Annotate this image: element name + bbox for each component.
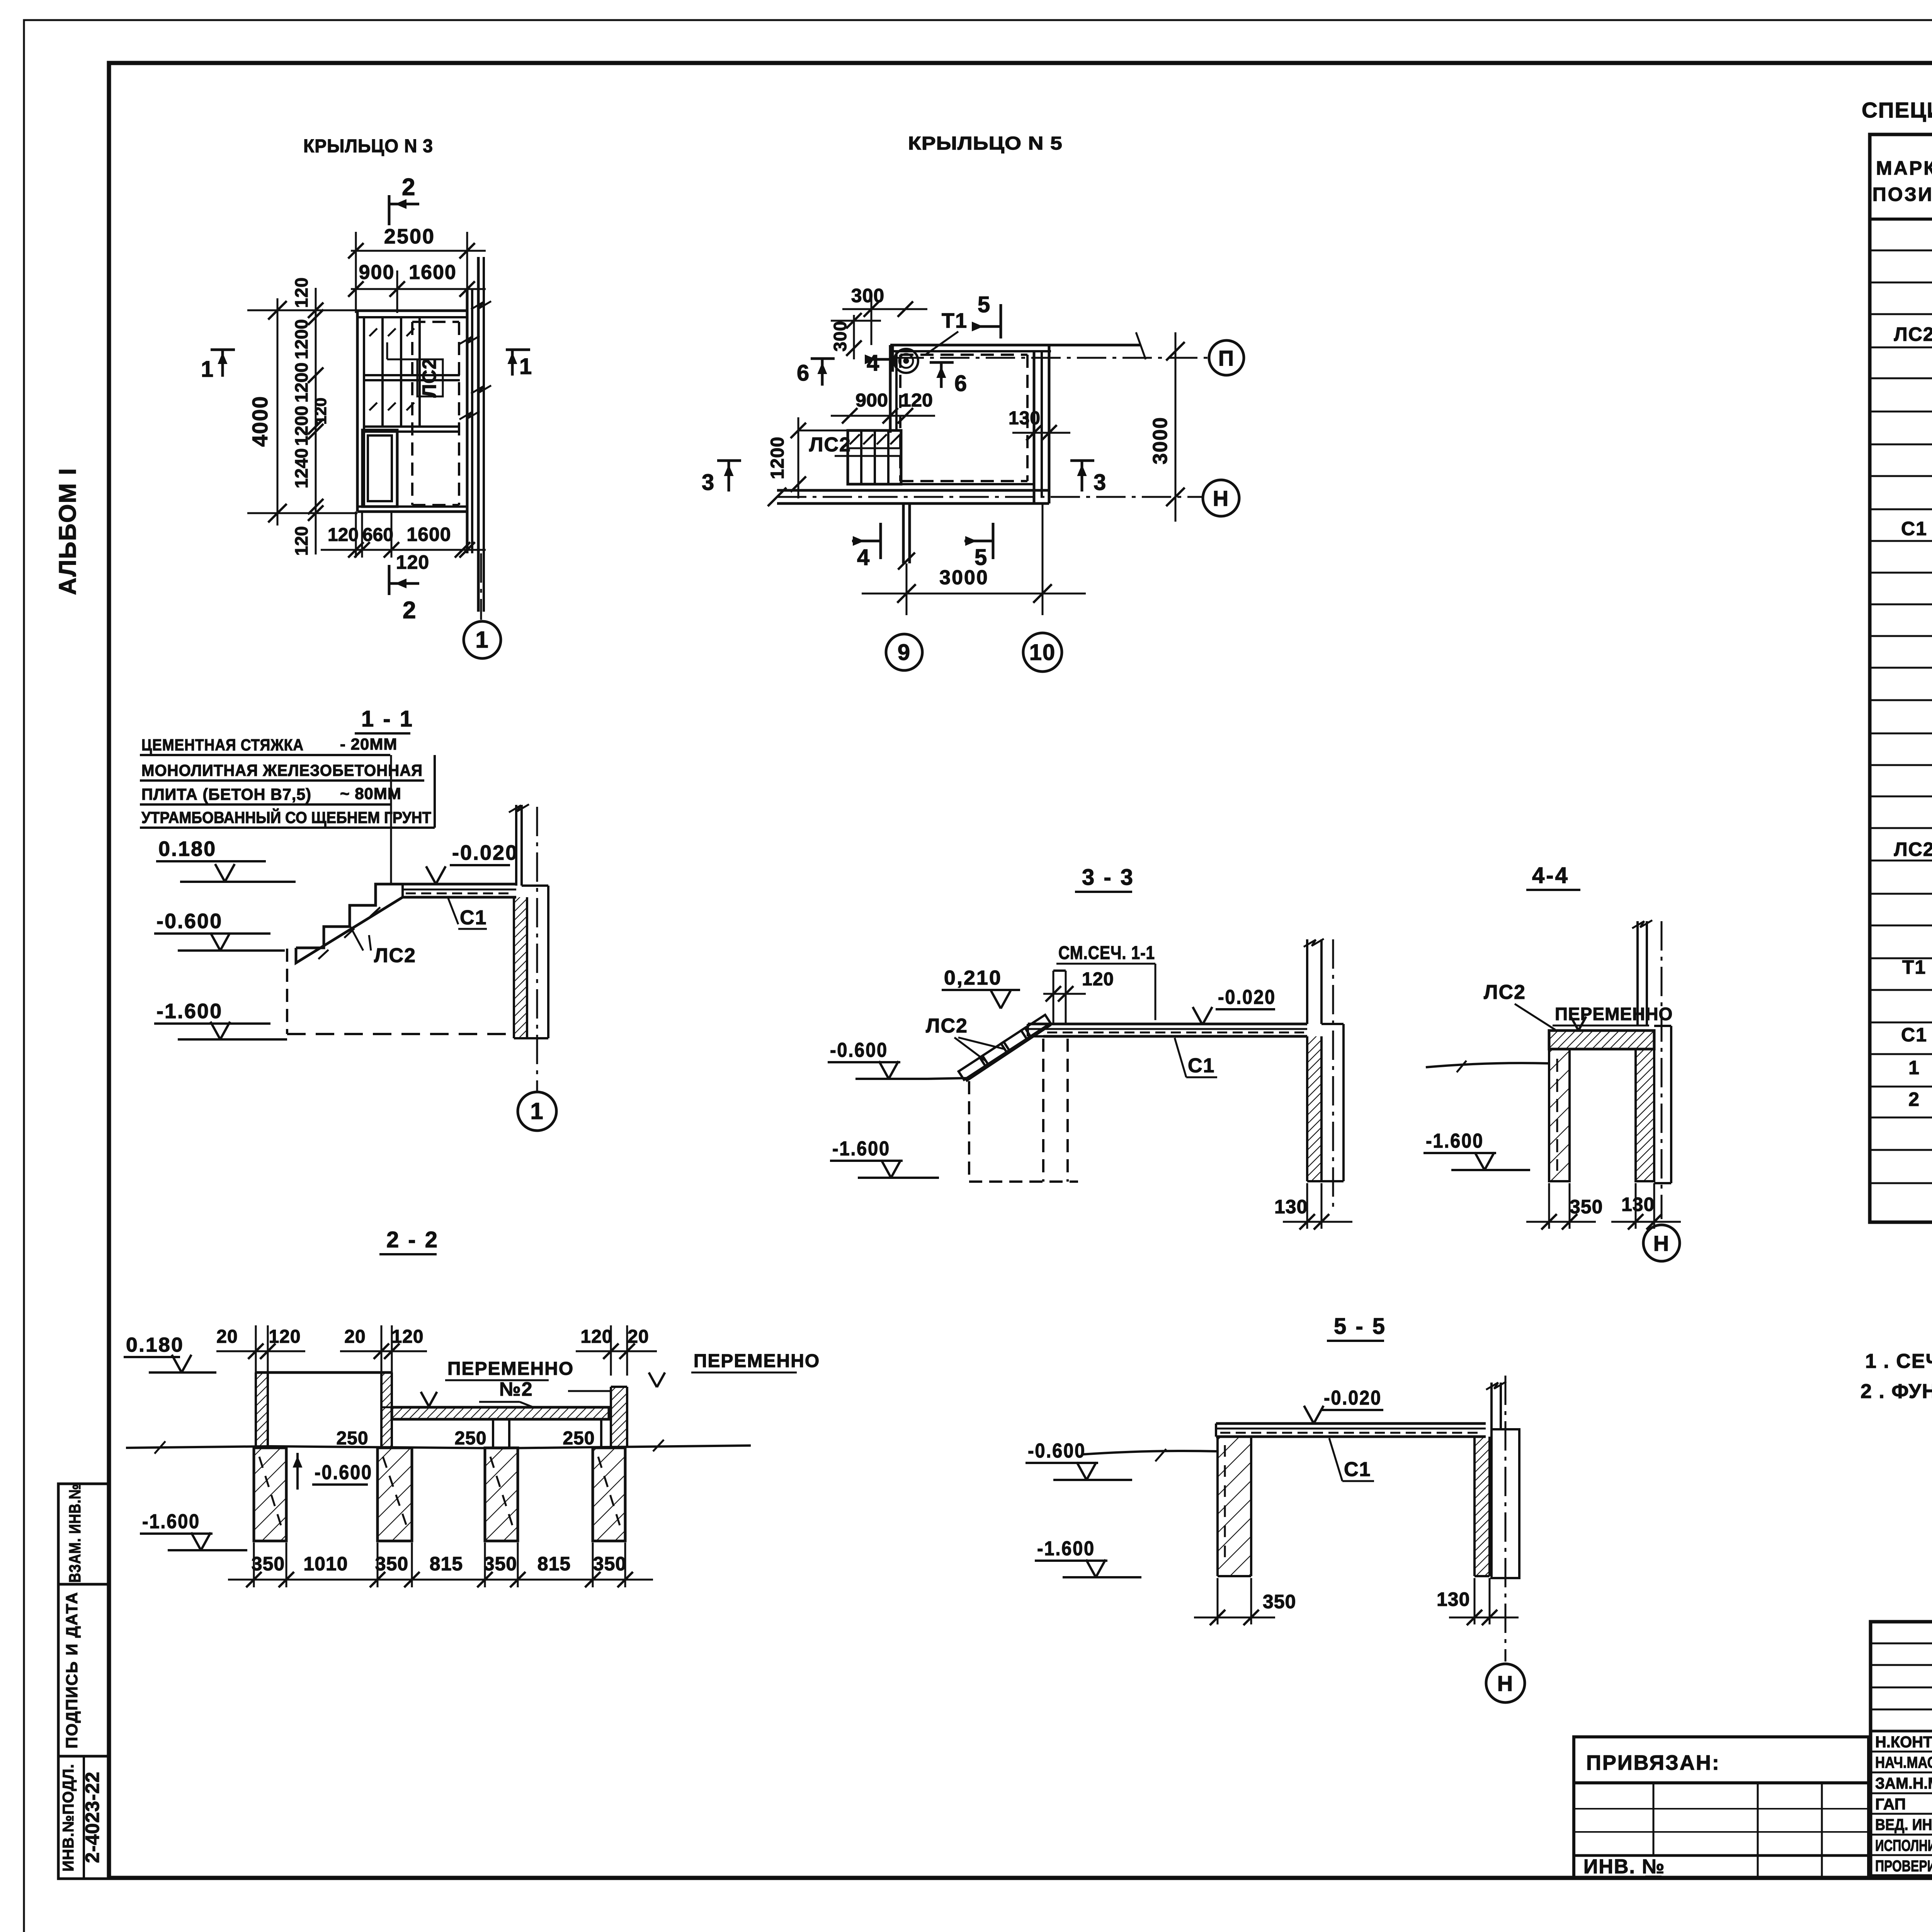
- section mark 1 (right): [506, 349, 530, 351]
- svg-text:3: 3: [702, 470, 714, 495]
- svg-text:120: 120: [1082, 969, 1114, 990]
- step nosing marks: [369, 328, 377, 336]
- grid circle 10: [1023, 633, 1062, 672]
- wall axis Н: [777, 496, 1202, 498]
- room right wall: [1033, 351, 1036, 503]
- svg-text:С1: С1: [460, 906, 487, 929]
- svg-text:4: 4: [857, 545, 869, 570]
- svg-text:Н.КОНТР.: Н.КОНТР.: [1875, 1733, 1932, 1751]
- grid circle 9: [886, 634, 922, 670]
- axis 4-4: [1661, 921, 1663, 1219]
- svg-text:ПЕРЕМЕННО: ПЕРЕМЕННО: [447, 1359, 574, 1379]
- wall above slab: [515, 805, 517, 886]
- svg-text:2 - 2: 2 - 2: [386, 1227, 439, 1252]
- svg-text:-1.600: -1.600: [1037, 1537, 1095, 1560]
- svg-text:МАРКА: МАРКА: [1876, 157, 1932, 179]
- svg-text:120: 120: [391, 1327, 423, 1347]
- svg-text:-0.600: -0.600: [1028, 1440, 1086, 1462]
- svg-text:С1: С1: [1188, 1054, 1215, 1077]
- svg-text:300: 300: [851, 285, 884, 306]
- ground line 4-4: [1426, 1063, 1549, 1067]
- svg-text:120: 120: [900, 390, 933, 411]
- svg-text:20: 20: [628, 1327, 649, 1347]
- dashed outline below steps: [968, 1081, 970, 1182]
- svg-text:5: 5: [978, 292, 990, 317]
- svg-text:130: 130: [1621, 1194, 1655, 1215]
- svg-text:Н: Н: [1497, 1671, 1514, 1696]
- svg-text:1200: 1200: [291, 362, 311, 403]
- room left wall: [889, 345, 892, 433]
- svg-text:ПОДПИСЬ И ДАТА: ПОДПИСЬ И ДАТА: [63, 1592, 81, 1748]
- pit rectangle: [362, 430, 397, 507]
- svg-text:5 - 5: 5 - 5: [1334, 1314, 1386, 1339]
- svg-text:ИНВ. №: ИНВ. №: [1583, 1855, 1665, 1878]
- landing stub wall: [1053, 969, 1066, 972]
- svg-text:120: 120: [291, 277, 311, 308]
- section mark 2 (top): [388, 195, 391, 225]
- svg-text:350: 350: [375, 1553, 408, 1575]
- column 5-5: [1490, 1383, 1493, 1429]
- svg-text:-0.600: -0.600: [830, 1039, 888, 1061]
- svg-text:ЛС2: ЛС2: [418, 358, 440, 398]
- grid circle Н (4-4): [1643, 1225, 1680, 1261]
- wall 2 (2-2): [381, 1372, 392, 1448]
- room bottom wall: [890, 483, 1034, 485]
- step hatch ticks: [370, 907, 380, 917]
- elevation -0.600 (2-2): [296, 1453, 299, 1490]
- dimension 2500: [351, 250, 486, 252]
- svg-text:4: 4: [867, 350, 879, 376]
- slab 2-2: [392, 1407, 609, 1419]
- svg-text:350: 350: [1263, 1591, 1296, 1612]
- svg-text:ПРИВЯЗАН:: ПРИВЯЗАН:: [1586, 1751, 1720, 1774]
- slab 4-4: [1549, 1031, 1654, 1049]
- landing edge lines: [364, 374, 460, 376]
- svg-text:-1.600: -1.600: [156, 1000, 223, 1023]
- svg-text:КРЫЛЬЦО N 5: КРЫЛЬЦО N 5: [908, 133, 1063, 154]
- wall 1 (2-2): [256, 1372, 268, 1448]
- grid circle П: [1209, 340, 1244, 375]
- pipe wall below: [902, 503, 905, 563]
- svg-text:-1.600: -1.600: [1426, 1130, 1484, 1152]
- dimension 3000 (bottom): [862, 593, 1086, 595]
- porch walls: left wall: [356, 311, 359, 512]
- svg-text:МОНОЛИТНАЯ ЖЕЛЕЗОБЕТОННАЯ: МОНОЛИТНАЯ ЖЕЛЕЗОБЕТОННАЯ: [141, 761, 423, 779]
- svg-text:Н: Н: [1213, 486, 1229, 510]
- svg-text:КРЫЛЬЦО N 3: КРЫЛЬЦО N 3: [303, 136, 433, 156]
- svg-text:ГАП: ГАП: [1875, 1795, 1906, 1813]
- building wall line: [477, 257, 480, 612]
- svg-text:Н: Н: [1653, 1231, 1670, 1255]
- porch slab: [403, 883, 516, 886]
- T1 pipe circles: [894, 349, 918, 373]
- left leg 4-4: [1549, 1049, 1570, 1181]
- slab 5-5: [1216, 1422, 1486, 1425]
- svg-text:20: 20: [216, 1327, 238, 1347]
- svg-text:ЛС2: ЛС2: [1894, 323, 1932, 345]
- svg-text:120: 120: [328, 525, 359, 545]
- section mark 2 (bottom): [388, 565, 391, 595]
- svg-text:ИСПОЛНИЛ: ИСПОЛНИЛ: [1875, 1837, 1932, 1854]
- dimension 900 / 120 (steps): [831, 415, 935, 417]
- left dimension 4000: [277, 298, 279, 526]
- svg-text:ЗАМ.Н.М.: ЗАМ.Н.М.: [1875, 1774, 1932, 1792]
- axis to circle 9: [906, 563, 908, 615]
- svg-text:-0.020: -0.020: [452, 841, 518, 864]
- svg-text:0.180: 0.180: [126, 1334, 184, 1356]
- svg-text:ЛС2: ЛС2: [1484, 981, 1526, 1003]
- svg-text:0.180: 0.180: [158, 837, 216, 861]
- left pier 5-5: [1218, 1437, 1251, 1576]
- section mark 1 (left): [211, 349, 235, 351]
- svg-text:6: 6: [954, 371, 967, 396]
- svg-text:1: 1: [475, 627, 489, 653]
- svg-text:2: 2: [402, 174, 415, 201]
- svg-text:ВЕД. ИНЖ: ВЕД. ИНЖ: [1875, 1816, 1932, 1833]
- svg-text:ПРОВЕРИЛ: ПРОВЕРИЛ: [1875, 1857, 1932, 1875]
- porch walls: top wall: [357, 310, 467, 312]
- ground line 2-2: [126, 1446, 751, 1448]
- svg-text:2: 2: [1908, 1088, 1920, 1110]
- svg-text:-0.600: -0.600: [156, 910, 223, 933]
- svg-text:ПЛИТА (БЕТОН В7,5): ПЛИТА (БЕТОН В7,5): [141, 785, 311, 803]
- dashed slab outline: [411, 322, 413, 505]
- grid circle Н (5-5): [1486, 1664, 1525, 1702]
- svg-text:3 - 3: 3 - 3: [1082, 865, 1134, 890]
- svg-text:300: 300: [830, 321, 850, 352]
- axis and column circle 1: [536, 807, 538, 1091]
- svg-text:НАЧ.МАСТ: НАЧ.МАСТ: [1875, 1753, 1932, 1771]
- svg-text:ЛС2: ЛС2: [809, 434, 851, 456]
- svg-text:10: 10: [1029, 640, 1056, 665]
- steps block ЛС2: [848, 430, 901, 484]
- svg-text:120: 120: [269, 1327, 301, 1347]
- specification table grid: [1870, 134, 1932, 1222]
- dimension 3000 (right, vertical): [1175, 332, 1177, 522]
- svg-text:3000: 3000: [939, 566, 989, 589]
- svg-text:ПЕРЕМЕННО: ПЕРЕМЕННО: [694, 1351, 820, 1371]
- svg-text:1600: 1600: [406, 524, 451, 545]
- column mark circle 1: [464, 621, 501, 658]
- svg-text:2: 2: [403, 597, 416, 624]
- svg-text:ВЗАМ. ИНВ.№: ВЗАМ. ИНВ.№: [66, 1484, 84, 1583]
- svg-text:250: 250: [563, 1428, 595, 1449]
- porch right wall: [466, 289, 469, 553]
- svg-text:350: 350: [484, 1553, 517, 1575]
- svg-text:1: 1: [201, 357, 213, 382]
- svg-text:С1: С1: [1344, 1458, 1371, 1481]
- svg-text:-1.600: -1.600: [142, 1510, 200, 1533]
- svg-text:-1.600: -1.600: [832, 1138, 890, 1160]
- svg-text:ЛС2: ЛС2: [1894, 838, 1932, 860]
- svg-text:Т1: Т1: [942, 309, 968, 332]
- svg-text:1: 1: [1908, 1057, 1920, 1078]
- wall axis П: [895, 357, 1209, 359]
- svg-text:20: 20: [344, 1327, 366, 1347]
- left dimension chain 120/1200/1200/1200/1240/120: [315, 288, 317, 554]
- svg-text:2-4023-22: 2-4023-22: [82, 1772, 103, 1863]
- dimension 900 / 1600: [351, 288, 486, 290]
- svg-text:ЛС2: ЛС2: [926, 1015, 968, 1037]
- svg-text:1 . СЕЧЕНИЕ 6-6 СМ . ЛИСТ А: 1 . СЕЧЕНИЕ 6-6 СМ . ЛИСТ АС -17.: [1865, 1350, 1932, 1372]
- svg-text:900: 900: [359, 261, 395, 284]
- svg-text:815: 815: [537, 1553, 571, 1575]
- svg-text:3: 3: [1094, 470, 1106, 495]
- svg-text:1200: 1200: [767, 437, 788, 480]
- room top wall: [890, 344, 1141, 347]
- svg-text:120: 120: [580, 1327, 612, 1347]
- slab 3-3: [1028, 1023, 1307, 1026]
- svg-text:130: 130: [1274, 1196, 1308, 1218]
- svg-text:4000: 4000: [248, 396, 272, 447]
- bottom dimension chain (2-2): [228, 1579, 653, 1581]
- wall above 4-4: [1636, 921, 1639, 1026]
- svg-text:250: 250: [454, 1428, 486, 1449]
- svg-text:- 20ММ: - 20ММ: [340, 735, 397, 753]
- column 4-4: [1654, 1025, 1671, 1027]
- svg-text:-0.020: -0.020: [1218, 986, 1276, 1009]
- svg-text:130: 130: [1437, 1588, 1470, 1610]
- svg-text:6: 6: [797, 361, 809, 386]
- hatched wall strip 3-3: [1307, 1036, 1321, 1181]
- ground line left: [927, 1078, 969, 1079]
- svg-text:УТРАМБОВАННЫЙ СО ЩЕБНЕМ ГРУНТ: УТРАМБОВАННЫЙ СО ЩЕБНЕМ ГРУНТ: [141, 808, 431, 827]
- axis 3-3: [1332, 939, 1334, 1211]
- piers below ground (2-2): [254, 1448, 286, 1541]
- svg-text:250: 250: [336, 1428, 368, 1449]
- svg-text:№2: №2: [499, 1378, 533, 1400]
- stair steps profile: [296, 884, 403, 948]
- porch walls: bottom wall: [357, 505, 467, 508]
- svg-text:ИНВ.№ПОДЛ.: ИНВ.№ПОДЛ.: [60, 1764, 77, 1871]
- svg-text:120: 120: [311, 398, 330, 425]
- step blocks on slope: [966, 1025, 1051, 1081]
- svg-text:1: 1: [530, 1098, 544, 1124]
- svg-text:2500: 2500: [384, 225, 435, 248]
- stair treads: [381, 317, 384, 427]
- svg-text:3000: 3000: [1149, 417, 1172, 464]
- column 3-3: [1342, 1024, 1345, 1181]
- svg-text:П: П: [1218, 346, 1235, 370]
- ground line 5-5: [1082, 1451, 1218, 1454]
- svg-text:1600: 1600: [409, 261, 457, 284]
- dashed ground line -1.600: [287, 1033, 514, 1035]
- ЛС2 label box: [417, 359, 443, 396]
- title block: signature table: [1871, 1622, 1932, 1876]
- axis 5-5: [1505, 1376, 1507, 1662]
- foundation below slab: [514, 897, 527, 1038]
- svg-text:900: 900: [855, 390, 888, 411]
- svg-text:9: 9: [898, 640, 911, 665]
- platform top line: [256, 1371, 392, 1374]
- svg-text:120: 120: [291, 526, 311, 556]
- svg-text:350: 350: [593, 1553, 626, 1575]
- svg-text:1010: 1010: [303, 1553, 348, 1575]
- svg-text:4-4: 4-4: [1532, 863, 1569, 888]
- axis to circle 10: [1042, 503, 1044, 615]
- svg-text:ЦЕМЕНТНАЯ СТЯЖКА: ЦЕМЕНТНАЯ СТЯЖКА: [141, 736, 304, 754]
- svg-text:1200: 1200: [291, 319, 311, 359]
- svg-text:815: 815: [430, 1553, 463, 1575]
- svg-text:С1: С1: [1901, 518, 1927, 539]
- svg-text:1 - 1: 1 - 1: [361, 706, 414, 731]
- привязан table: [1574, 1737, 1869, 1878]
- left margin stamp column boxes: [58, 1484, 109, 1879]
- dashed interior outline: [900, 354, 1027, 356]
- right leg 4-4: [1636, 1049, 1654, 1181]
- svg-text:СПЕЦИФИКАЦИЯ ИЗДЕЛИЙ И МАТЕРИА: СПЕЦИФИКАЦИЯ ИЗДЕЛИЙ И МАТЕРИАЛОВ НА КРЫ…: [1862, 98, 1932, 122]
- svg-text:С1: С1: [1901, 1024, 1927, 1046]
- svg-text:350: 350: [252, 1553, 285, 1575]
- svg-text:~ 80ММ: ~ 80ММ: [340, 784, 401, 803]
- wall 3 (2-2): [611, 1387, 627, 1448]
- svg-text:660: 660: [362, 525, 393, 545]
- svg-text:120: 120: [396, 551, 429, 573]
- wall above slab 3-3: [1306, 939, 1308, 1024]
- svg-text:1: 1: [519, 354, 532, 379]
- svg-text:350: 350: [1570, 1196, 1603, 1218]
- svg-text:0,210: 0,210: [944, 967, 1002, 989]
- grid circle Н: [1203, 480, 1239, 516]
- svg-text:Т1: Т1: [1902, 956, 1926, 978]
- bottom dimension chain 120/660/1600/120: [321, 549, 486, 551]
- middle support stubs: [492, 1419, 494, 1448]
- svg-text:1200: 1200: [291, 406, 311, 446]
- svg-text:ПОЗИЦ.: ПОЗИЦ.: [1872, 184, 1932, 205]
- svg-text:-0.020: -0.020: [1324, 1387, 1382, 1409]
- svg-text:-0.600: -0.600: [315, 1461, 372, 1484]
- svg-text:130: 130: [1009, 408, 1041, 429]
- right pier 5-5: [1475, 1437, 1490, 1576]
- top dimensions 20/120 pairs: [216, 1350, 305, 1352]
- axis line to column 1: [480, 553, 482, 620]
- svg-text:АЛЬБОМ I: АЛЬБОМ I: [54, 468, 81, 595]
- svg-text:2 . ФУНДАМЕНТЫ ПОД КРЫЛЬЦА: 2 . ФУНДАМЕНТЫ ПОД КРЫЛЬЦА СМ . ЛИСТ АС …: [1861, 1380, 1932, 1403]
- svg-text:СМ.СЕЧ. 1-1: СМ.СЕЧ. 1-1: [1058, 943, 1155, 963]
- svg-text:ЛС2: ЛС2: [374, 944, 416, 967]
- svg-text:1240: 1240: [291, 448, 311, 488]
